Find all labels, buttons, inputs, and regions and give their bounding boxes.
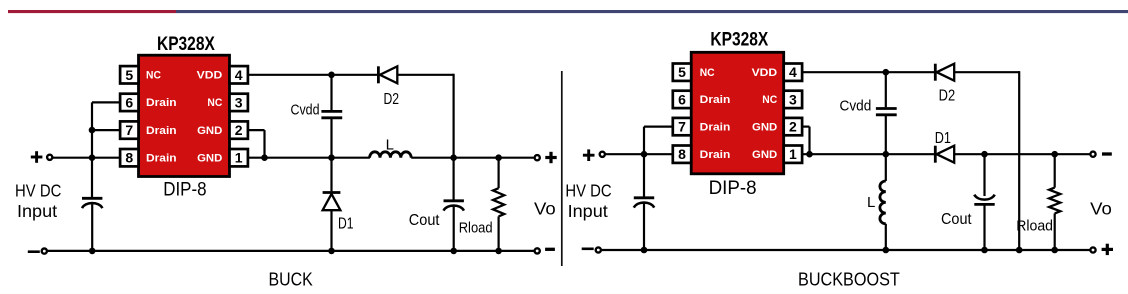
svg-text:Drain: Drain bbox=[700, 94, 731, 106]
junction input cap bottom bbox=[89, 248, 96, 255]
diode D1 (buckboost) bbox=[934, 146, 937, 163]
svg-text:1: 1 bbox=[235, 150, 243, 166]
wire input cap branch (buckboost) bbox=[643, 154, 645, 197]
junction D2 branch bottom (buckboost) bbox=[1016, 247, 1023, 254]
wire Cvdd upper bbox=[330, 75, 332, 110]
svg-text:DIP-8: DIP-8 bbox=[163, 179, 206, 200]
pin 2 bbox=[230, 121, 248, 138]
terminal + input (buck) bbox=[31, 156, 43, 159]
wire bottom rail (buckboost) bbox=[602, 249, 1090, 251]
inductor L (buck) bbox=[370, 152, 412, 158]
wire Cout lower (buckboost) bbox=[983, 204, 985, 250]
svg-text:2: 2 bbox=[235, 122, 243, 138]
svg-text:Cout: Cout bbox=[409, 212, 440, 229]
terminal - input (buckboost) bbox=[582, 248, 594, 251]
capacitor Cin (buckboost) bbox=[634, 196, 654, 199]
svg-text:5: 5 bbox=[125, 67, 133, 83]
svg-text:Drain: Drain bbox=[146, 97, 177, 109]
svg-text:VDD: VDD bbox=[752, 67, 778, 79]
diode D2 (buckboost) bbox=[934, 64, 937, 81]
svg-text:5: 5 bbox=[678, 64, 686, 80]
wire D2 to corner bbox=[397, 74, 453, 76]
pin 4 (buckboost) bbox=[784, 64, 802, 81]
junction D2 branch / Cout top bbox=[450, 154, 457, 161]
divider line bbox=[561, 71, 563, 266]
svg-text:6: 6 bbox=[125, 94, 133, 110]
pin 1 bbox=[230, 149, 248, 166]
svg-text:BUCK: BUCK bbox=[269, 269, 314, 290]
svg-text:Drain: Drain bbox=[146, 125, 177, 137]
wire L to + output bbox=[411, 157, 533, 159]
svg-text:NC: NC bbox=[146, 70, 161, 82]
svg-text:NC: NC bbox=[762, 94, 777, 106]
svg-text:HV DC: HV DC bbox=[565, 181, 611, 201]
capacitor Cin (buck) bbox=[82, 197, 102, 200]
pin 2 (buckboost) bbox=[784, 118, 802, 135]
wire pin6 branch bbox=[92, 101, 120, 103]
ic U2 KP328X (buckboost) bbox=[691, 52, 784, 174]
junction Cout bottom (buckboost) bbox=[981, 247, 988, 254]
svg-text:D2: D2 bbox=[939, 88, 956, 105]
wire pin7 branch bbox=[92, 129, 120, 131]
svg-text:GND: GND bbox=[752, 149, 777, 161]
svg-text:Vo: Vo bbox=[534, 199, 556, 219]
resistor Rload (buckboost) bbox=[1054, 154, 1056, 187]
svg-text:Drain: Drain bbox=[146, 152, 177, 164]
svg-text:NC: NC bbox=[207, 97, 222, 109]
junction Rload bottom (buck) bbox=[495, 248, 502, 255]
svg-text:6: 6 bbox=[678, 91, 686, 107]
junction drain bus input bbox=[89, 154, 96, 161]
svg-text:Rload: Rload bbox=[459, 219, 493, 236]
junction Rload top (buck) bbox=[495, 154, 502, 161]
pin 4 bbox=[230, 66, 248, 83]
svg-text:KP328X: KP328X bbox=[157, 34, 215, 55]
terminal - output (buck) bbox=[535, 248, 540, 253]
svg-text:DIP-8: DIP-8 bbox=[709, 178, 757, 199]
wire pin1 row (buckboost) bbox=[802, 153, 934, 155]
wire VDD row (buck) bbox=[248, 74, 377, 76]
wire Cout upper (buck) bbox=[453, 158, 455, 200]
svg-text:KP328X: KP328X bbox=[710, 30, 768, 51]
svg-text:D2: D2 bbox=[384, 91, 400, 108]
terminal - input (buck) bbox=[28, 250, 40, 253]
wire Cvdd lower bbox=[330, 119, 332, 158]
terminal + input (buckboost) bbox=[583, 154, 595, 157]
svg-text:4: 4 bbox=[789, 64, 797, 80]
pin 7 (buckboost) bbox=[673, 118, 691, 135]
wire pin7 branch (buckboost) bbox=[644, 125, 673, 127]
wire bottom rail (buck) bbox=[47, 250, 534, 252]
svg-text:BUCKBOOST: BUCKBOOST bbox=[798, 269, 900, 290]
svg-text:4: 4 bbox=[235, 67, 243, 83]
junction sw node Cvdd/L (buckboost) bbox=[883, 151, 890, 158]
svg-text:GND: GND bbox=[197, 152, 222, 164]
wire D2 to corner (buckboost) bbox=[954, 71, 1019, 73]
pin 6 bbox=[120, 94, 138, 111]
pin 8 bbox=[120, 149, 138, 166]
pin 6 (buckboost) bbox=[673, 91, 691, 108]
inductor L (buckboost) bbox=[885, 154, 887, 181]
pin 8 (buckboost) bbox=[673, 146, 691, 163]
junction Rload top (buckboost) bbox=[1051, 151, 1058, 158]
pin 1 (buckboost) bbox=[784, 146, 802, 163]
svg-text:Cout: Cout bbox=[941, 211, 972, 228]
svg-text:D1: D1 bbox=[338, 216, 354, 233]
junction pin2 on sw node bbox=[261, 154, 268, 161]
wire pin2 jog bbox=[248, 129, 265, 131]
pin 7 bbox=[120, 121, 138, 138]
junction drain bus pin7 bbox=[89, 127, 96, 134]
wire + input to pin8 (buckboost) bbox=[606, 153, 673, 155]
pin 5 bbox=[120, 66, 138, 83]
svg-text:3: 3 bbox=[235, 94, 243, 110]
svg-text:2: 2 bbox=[789, 119, 797, 135]
wire pin1 row bbox=[248, 157, 370, 159]
capacitor Cvdd (buck) bbox=[321, 110, 342, 113]
svg-text:Cvdd: Cvdd bbox=[291, 102, 320, 118]
wire Cout lower (buck) bbox=[453, 207, 455, 251]
resistor Rload (buck) bbox=[498, 158, 500, 189]
wire Cvdd lower (buckboost) bbox=[885, 116, 887, 154]
terminal - output (buckboost) bbox=[1090, 152, 1095, 157]
svg-text:1: 1 bbox=[789, 146, 797, 162]
junction input cap bottom (buckboost) bbox=[641, 247, 648, 254]
diode D2 (buck) bbox=[377, 66, 380, 83]
capacitor Cout (buck) bbox=[444, 199, 464, 202]
junction D1 bottom bbox=[328, 248, 335, 255]
wire D1 to - output bbox=[954, 153, 1089, 155]
svg-text:Rload: Rload bbox=[1016, 218, 1053, 235]
svg-text:3: 3 bbox=[789, 91, 797, 107]
terminal + output (buck) bbox=[535, 155, 540, 160]
svg-text:Cvdd: Cvdd bbox=[840, 98, 872, 114]
wire VDD row (buckboost) bbox=[802, 71, 934, 73]
pin 3 bbox=[230, 94, 248, 111]
wire Cout upper (buckboost) bbox=[983, 154, 985, 196]
junction Rload bottom (buckboost) bbox=[1051, 247, 1058, 254]
junction pin2 on sw node (buckboost) bbox=[806, 151, 813, 158]
svg-text:Drain: Drain bbox=[700, 149, 731, 161]
svg-text:Input: Input bbox=[17, 201, 57, 221]
svg-text:GND: GND bbox=[197, 125, 222, 137]
svg-text:NC: NC bbox=[700, 67, 715, 79]
wire Cvdd upper (buckboost) bbox=[885, 72, 887, 107]
junction drain bus input (buckboost) bbox=[641, 151, 648, 158]
svg-text:GND: GND bbox=[752, 121, 777, 133]
svg-text:D1: D1 bbox=[935, 130, 951, 147]
diode D1 (buck) bbox=[330, 158, 332, 192]
svg-text:7: 7 bbox=[678, 119, 686, 135]
svg-text:Drain: Drain bbox=[700, 121, 731, 133]
svg-text:VDD: VDD bbox=[197, 70, 223, 82]
wire + input to pin8 bbox=[53, 157, 121, 159]
junction Cout bottom (buck) bbox=[450, 248, 457, 255]
capacitor Cvdd (buckboost) bbox=[876, 107, 897, 110]
capacitor Cout (buckboost, reversed) bbox=[974, 203, 994, 206]
pin 5 (buckboost) bbox=[673, 64, 691, 81]
terminal + output (buckboost) bbox=[1090, 247, 1095, 252]
wire pin2 jog (buckboost) bbox=[802, 125, 809, 127]
svg-text:L: L bbox=[386, 137, 394, 154]
junction Cout top (buckboost) bbox=[981, 151, 988, 158]
svg-text:7: 7 bbox=[125, 122, 133, 138]
junction sw node Cvdd/D1 bbox=[328, 154, 335, 161]
junction Cvdd top (buckboost) bbox=[883, 69, 890, 76]
pin 3 (buckboost) bbox=[784, 91, 802, 108]
junction Cvdd top bbox=[328, 72, 335, 79]
svg-text:L: L bbox=[867, 194, 875, 211]
junction L bottom (buckboost) bbox=[883, 247, 890, 254]
svg-text:Vo: Vo bbox=[1090, 199, 1112, 219]
svg-text:HV DC: HV DC bbox=[15, 181, 61, 201]
svg-text:8: 8 bbox=[125, 150, 133, 166]
wire input cap to rail (buckboost) bbox=[643, 204, 645, 250]
wire input cap to rail bbox=[91, 204, 93, 251]
wire input cap branch bbox=[91, 158, 93, 198]
svg-text:8: 8 bbox=[678, 146, 686, 162]
svg-text:Input: Input bbox=[568, 201, 608, 221]
ic U1 KP328X (buck) bbox=[139, 55, 230, 176]
